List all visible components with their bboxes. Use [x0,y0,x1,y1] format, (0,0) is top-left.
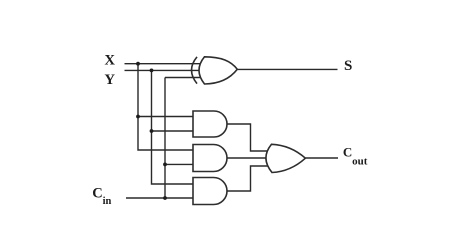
and gate U4 (Y·Cin) [193,178,227,205]
wire: Cin input horizontal [126,197,193,199]
svg-text:Cin: Cin [92,185,111,207]
svg-text:Y: Y [105,72,116,88]
wire: Y vertical drop [152,70,194,184]
wire: Y branch to AND1 [152,130,194,132]
and gate U2 (X·Y) [193,111,227,137]
svg-text:S: S [344,58,352,74]
or gate U5 (carry) [266,144,305,172]
and gate U3 (X·Cin) [193,145,227,172]
wire: OR output to Cout [306,157,339,159]
wire: Cin branch to XOR horizontal [165,77,202,79]
svg-text:X: X [105,53,116,69]
wire: X input horizontal [125,63,202,65]
wire: AND3 output to OR [227,166,269,191]
junction Y to AND1 [150,129,154,133]
wire: X branch to AND1 [138,116,193,118]
wire: X vertical drop [138,64,193,150]
xor gate U1 input-side extra arc [192,57,198,84]
wire: Y input horizontal [125,69,202,71]
wire: Cin vertical riser [164,78,166,199]
wire: AND2 output to OR [227,157,267,159]
wire: AND1 output to OR [227,124,269,151]
wire: Cin branch to AND2 [165,163,193,165]
junction on Cin line [163,196,167,200]
junction on Y line [150,69,154,73]
wire: XOR output to S [238,68,338,70]
junction Cin to AND2 [163,163,167,167]
xor gate U1 (sum) [199,57,237,84]
junction X to AND1 [136,115,140,119]
svg-text:Cout: Cout [343,145,368,168]
junction on X line [136,62,140,66]
